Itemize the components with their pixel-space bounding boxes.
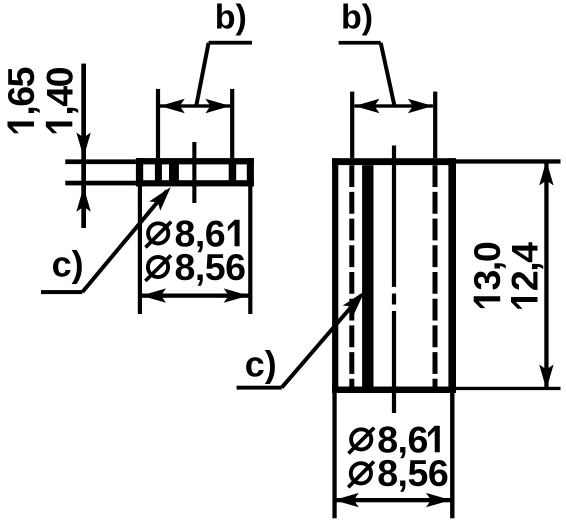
svg-text:2,4: 2,4 [504,242,546,291]
right view centerline [392,146,396,414]
dimension diameter right arrow left [334,493,359,507]
dimension b left dimension line [160,104,231,107]
svg-text:3,0: 3,0 [466,242,508,290]
value 12,4 text [504,242,546,309]
left view sleeve bar c-feature [169,163,179,182]
value 1,65 text [0,67,42,133]
dimension 1,65 1,40 extension line bottom [65,181,136,186]
label c left arrowhead [149,182,176,210]
label b right underline [339,41,381,45]
dimension diameter left arrow right [224,288,249,302]
label c left underline [41,290,82,294]
dimension diameter right extension line right [450,393,454,518]
svg-text:b): b) [341,0,373,36]
left view bore edge left [155,163,162,182]
right view bore hidden line left [349,165,354,386]
dimension b left extension line left [156,89,160,158]
right view sleeve bar c-feature [362,165,373,386]
right view outline [332,158,456,393]
value diameter 8,61 right text [349,418,440,460]
dimension b left arrow left [160,99,185,113]
svg-text:b): b) [215,0,247,36]
dimension diameter left arrow left [141,288,166,302]
label b left leader [196,43,208,106]
label c right arrowhead [343,287,370,315]
dimension b left arrow right [205,99,230,113]
dimension b right extension line right [433,92,437,159]
value 1,40 text [38,67,80,133]
dimension b right arrow left [355,99,380,113]
label c left leader [82,191,167,292]
dimension 1,65 1,40 extension line top [65,159,136,164]
dimension height arrow up [539,161,553,186]
left view bore edge right [229,163,237,182]
dimension height arrow down [539,365,553,390]
dimension diameter left extension line right [248,186,252,314]
left view centerline [192,142,196,203]
dimension 1,65 1,40 arrow up [76,187,90,212]
dimension 1,65 1,40 dimension line [81,64,86,228]
dimension diameter left dimension line [141,294,249,298]
dimension height dimension line [544,162,548,389]
value diameter 8,61 left text [146,212,240,254]
label b left underline [209,41,252,45]
dimension height extension line bottom [456,387,561,390]
svg-text:,65: ,65 [0,67,42,115]
dimension 1,65 1,40 arrow down [76,133,90,158]
value 13,0 text [466,242,508,308]
svg-text:c): c) [52,243,84,284]
dimension diameter left extension line left [138,186,142,314]
dimension height extension line top [456,159,561,163]
dimension b right dimension line [355,104,433,107]
value diameter 8,56 right text [348,452,448,494]
label c right underline [237,386,282,390]
svg-text:8,56: 8,56 [377,452,448,494]
dimension diameter right extension line left [332,393,336,518]
dimension b right extension line left [350,92,354,159]
dimension diameter right dimension line [334,498,451,502]
svg-text:c): c) [245,343,277,384]
right view bore hidden line right [433,165,438,386]
dimension b right arrow right [408,99,433,113]
dimension diameter right arrow right [426,493,451,507]
label b right leader [381,43,395,106]
value diameter 8,56 left text [145,246,245,288]
svg-text:,40: ,40 [38,67,80,115]
dimension b left extension line right [230,89,234,158]
label c right leader [282,295,362,388]
svg-text:8,56: 8,56 [175,246,246,288]
left view outline [136,158,254,186]
